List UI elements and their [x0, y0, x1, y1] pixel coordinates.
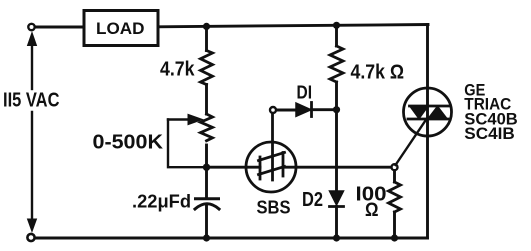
SBS circle — [246, 142, 296, 192]
label ohm (100 resistor) — [365, 200, 379, 221]
wire node to D1 — [277, 109, 297, 112]
label 115 VAC — [3, 90, 60, 112]
triac circle — [404, 88, 452, 136]
svg-text:4.7k Ω: 4.7k Ω — [351, 62, 405, 84]
resistor R3 100 ohm — [389, 182, 401, 212]
label GE TRIAC SC40B SC41B — [464, 81, 518, 143]
wire triac MT2 and MT1 vertical — [426, 25, 429, 239]
wire R2 to D1 junction — [335, 82, 338, 110]
triac symbol triangles and bars — [408, 106, 450, 119]
wire capacitor to bottom rail — [205, 206, 208, 239]
junction dot bottom at D2 — [333, 234, 340, 241]
arrow up toward top terminal (115 VAC) — [28, 33, 37, 90]
wire D1 junction down to D2 — [335, 110, 338, 191]
junction dot bottom at R3 — [391, 234, 398, 241]
potentiometer wiper arrow — [168, 114, 203, 124]
label D1 — [297, 82, 313, 103]
svg-text:LOAD: LOAD — [96, 19, 145, 38]
wire R3 to bottom rail — [393, 212, 396, 238]
diode D1 — [296, 103, 312, 117]
junction dot mid-left node — [203, 164, 210, 171]
label SBS — [257, 197, 291, 218]
svg-text:SC4IB: SC4IB — [464, 125, 515, 143]
diode D2 — [330, 191, 344, 207]
wire top from left terminal to LOAD — [35, 26, 83, 29]
wire from top rail to R1 — [205, 26, 208, 50]
wire mid rail right of SBS to gate node — [283, 166, 391, 169]
node open circle gate node — [392, 164, 398, 170]
wire top from LOAD to right corner — [158, 25, 428, 27]
junction dot D1 cathode at R2 branch — [333, 106, 340, 113]
label 0-500K — [93, 132, 164, 154]
svg-text:0-500K: 0-500K — [93, 132, 164, 154]
svg-text:DI: DI — [297, 82, 313, 103]
svg-text:.22μFd: .22μFd — [132, 192, 191, 212]
svg-text:II5 VAC: II5 VAC — [3, 90, 60, 112]
triac gate wire — [396, 119, 427, 165]
label D2 — [302, 189, 323, 211]
svg-text:SBS: SBS — [257, 197, 291, 218]
wire bottom rail — [35, 237, 428, 240]
junction dot top at R2 — [333, 22, 340, 29]
SBS symbol bars and diagonals — [259, 153, 285, 180]
label .22uFd — [132, 192, 191, 212]
svg-text:D2: D2 — [302, 189, 323, 211]
label LOAD — [96, 19, 145, 38]
resistor R1 4.7k (left) — [201, 51, 213, 85]
junction dot top at R1 — [203, 23, 210, 30]
terminal bottom-left (open circle) — [27, 234, 34, 241]
arrow down toward bottom terminal (115 VAC) — [28, 112, 37, 232]
wire R1 to potentiometer — [205, 85, 208, 115]
junction dot bottom at capacitor — [203, 234, 210, 241]
svg-text:Ω: Ω — [365, 200, 379, 221]
SBS gate wire from D1 node — [271, 113, 274, 180]
wire pot to mid junction — [205, 145, 208, 167]
LOAD box — [84, 11, 158, 46]
node open circle at D1 anode — [270, 107, 276, 113]
potentiometer 0-500K element — [201, 114, 213, 141]
potentiometer wiper return wire — [168, 120, 203, 168]
wire D2 to bottom rail — [335, 207, 338, 239]
label 100 — [356, 184, 387, 206]
svg-text:4.7k: 4.7k — [160, 59, 195, 81]
wire mid rail left of SBS — [207, 166, 261, 169]
wire gate node to R3 — [393, 171, 396, 183]
label 4.7k (left resistor) — [160, 59, 195, 81]
capacitor C1 .22uFd — [195, 199, 219, 209]
wire D1 to right branch junction — [312, 108, 337, 111]
terminal top-left (open circle) — [28, 24, 34, 30]
label 4.7k ohm — [351, 62, 405, 84]
resistor R2 4.7k ohm — [330, 46, 343, 82]
wire mid junction to capacitor — [205, 167, 208, 198]
wire top rail to R2 — [335, 25, 338, 46]
